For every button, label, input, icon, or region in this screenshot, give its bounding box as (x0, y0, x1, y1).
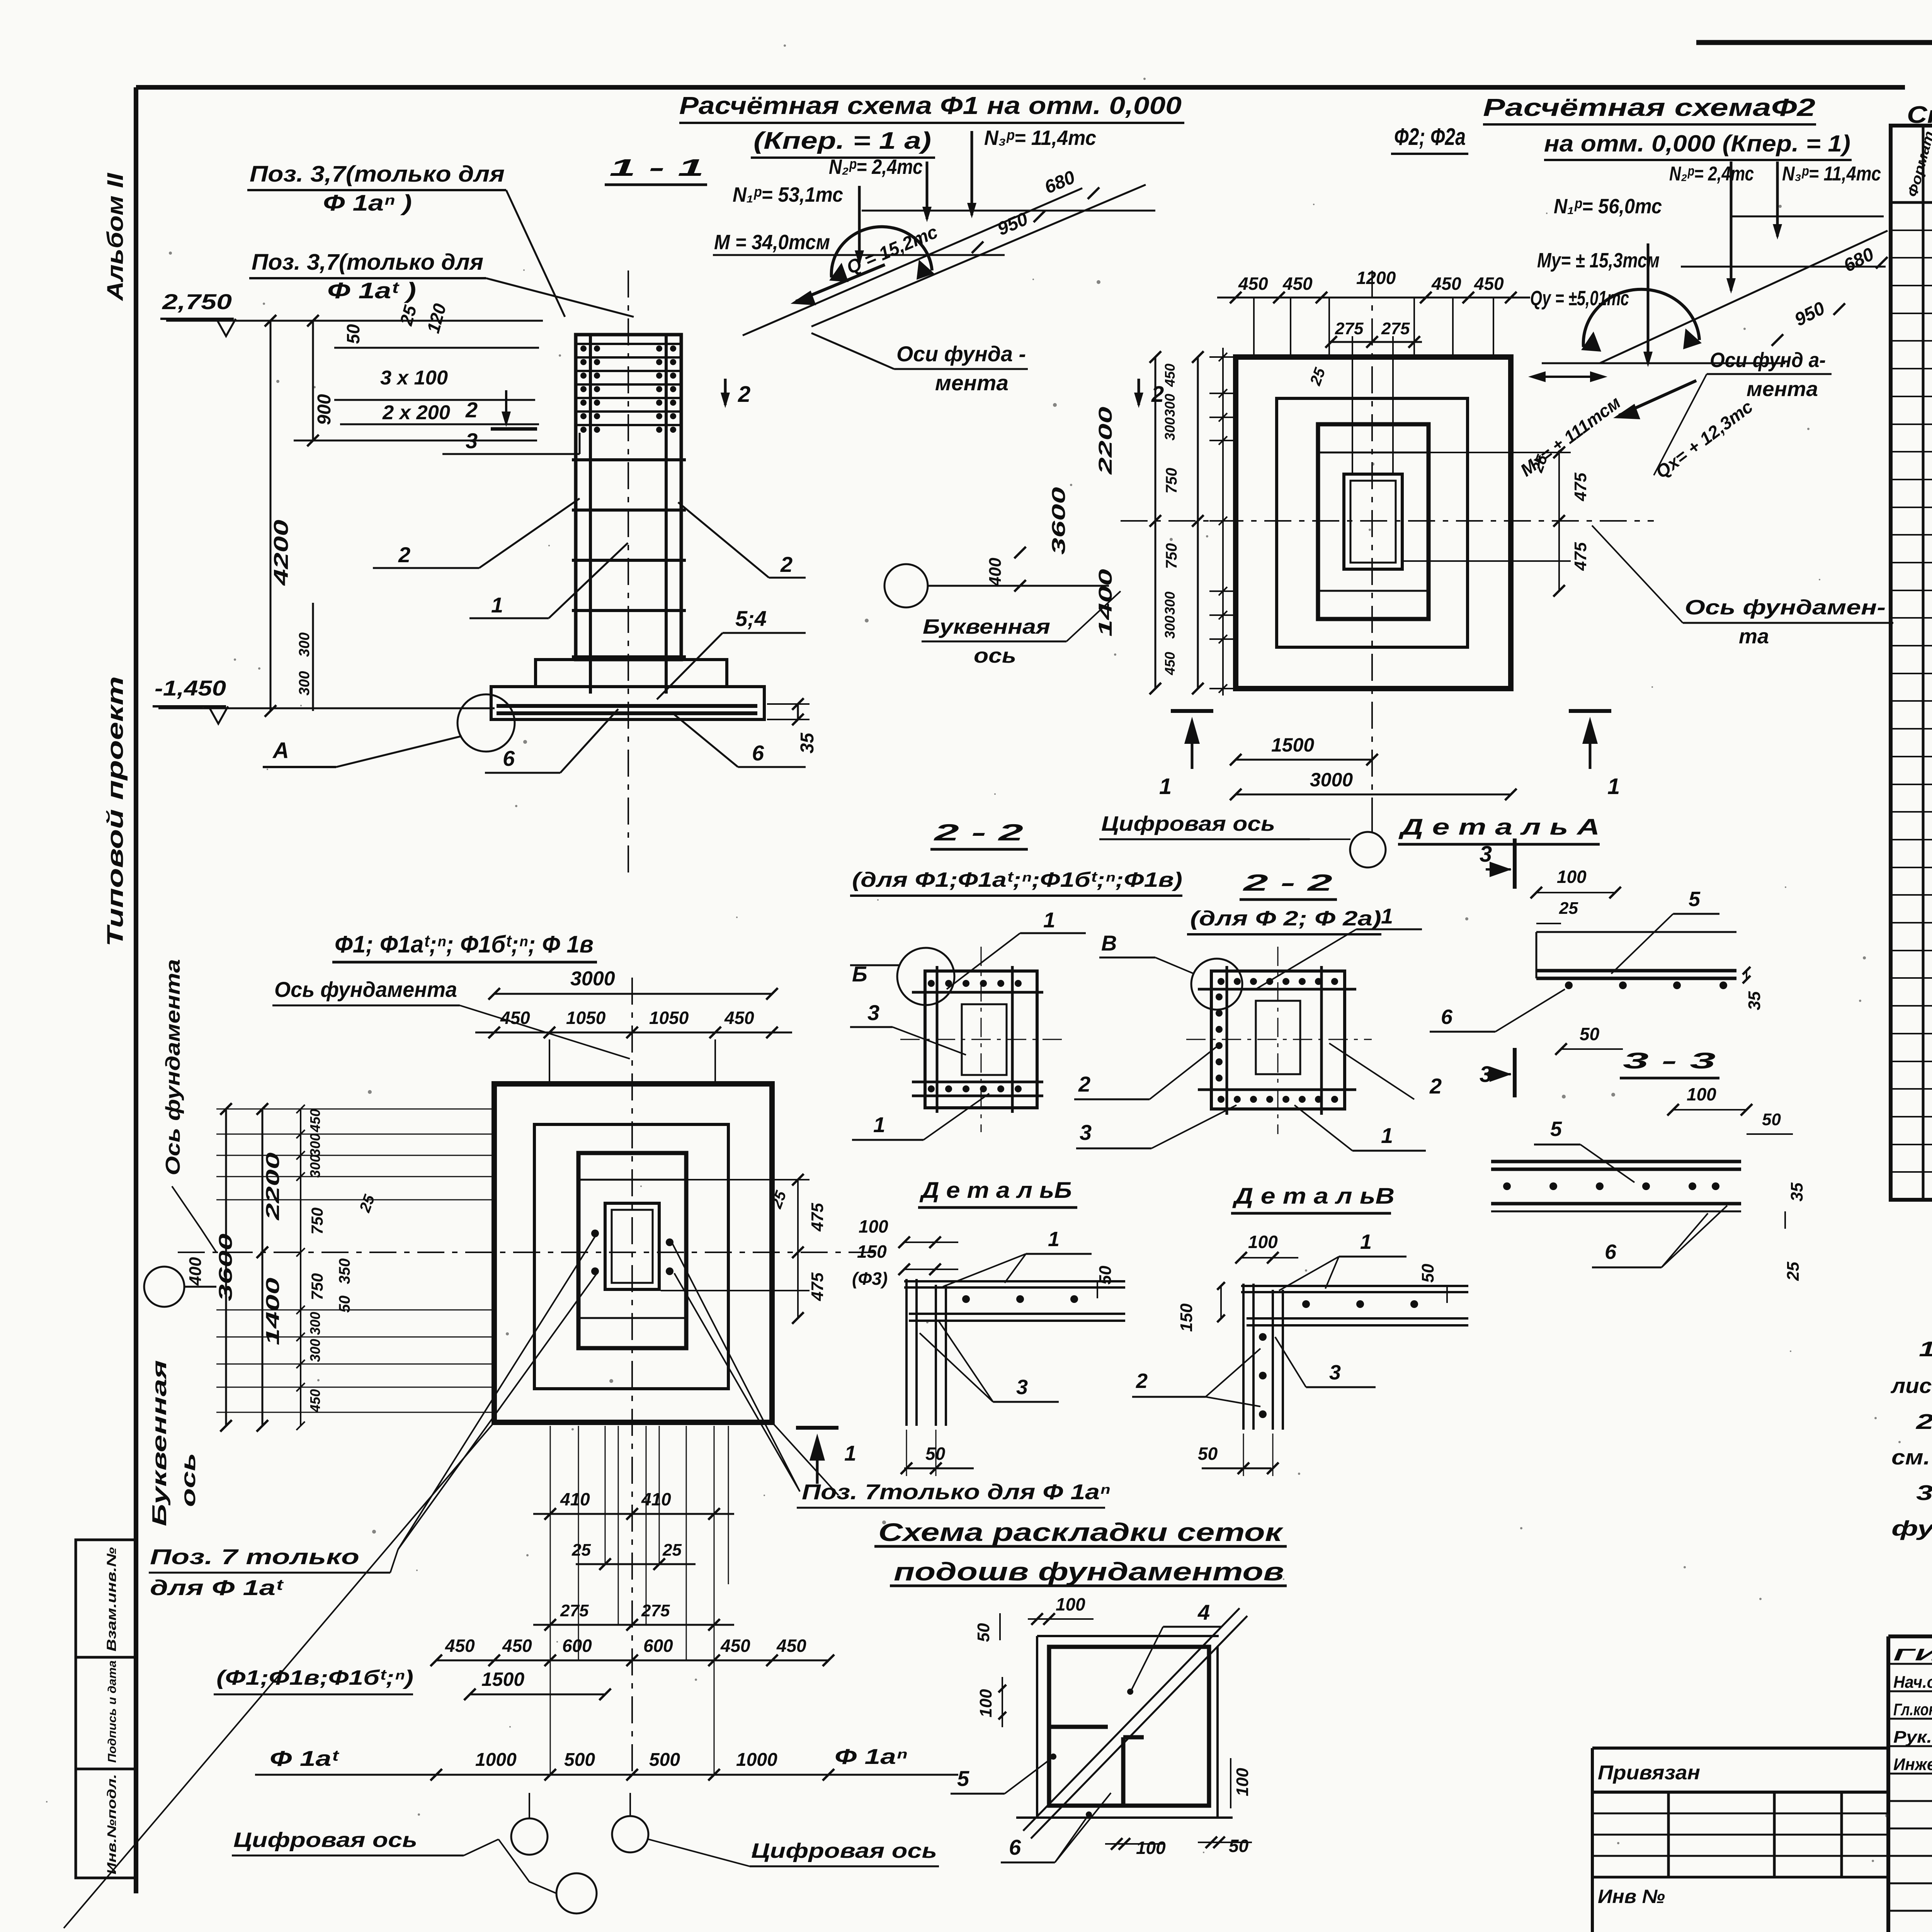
schema F1 moment arc (832, 227, 932, 277)
svg-text:мента: мента (935, 371, 1009, 395)
detail A slab (1536, 931, 1736, 933)
svg-text:3: 3 (466, 429, 478, 453)
privyazan table (1592, 1747, 1888, 1750)
svg-text:2.Указания по составу бетона: 2.Указания по составу бетона и его плотн… (1916, 1410, 1932, 1434)
schema F2 force arrow N3 (1776, 162, 1779, 236)
plan F1 dim 1500 (470, 1694, 605, 1696)
svg-text:ось: ось (177, 1453, 200, 1507)
svg-text:5: 5 (1550, 1117, 1562, 1141)
svg-text:100: 100 (1248, 1232, 1278, 1252)
svg-text:Оси фунда -: Оси фунда - (896, 342, 1026, 366)
svg-text:5: 5 (957, 1766, 969, 1791)
mesh layout inner partitions (1049, 1725, 1108, 1729)
svg-text:Ф 1аⁿ: Ф 1аⁿ (835, 1744, 907, 1769)
svg-text:(Кпер. = 1 а): (Кпер. = 1 а) (753, 128, 931, 154)
svg-text:2200: 2200 (1095, 406, 1116, 475)
svg-text:50: 50 (1580, 1024, 1600, 1044)
mesh layout outer thin square (1036, 1636, 1038, 1818)
svg-text:Qу = ±5,01тс: Qу = ±5,01тс (1530, 287, 1629, 310)
svg-text:1: 1 (844, 1441, 856, 1465)
spec table column lines (1922, 126, 1925, 1200)
svg-text:25: 25 (1559, 899, 1578, 918)
plan F2 anchor opening double rect (1344, 474, 1402, 569)
svg-text:150: 150 (857, 1242, 887, 1262)
plan F1 middle step rect (534, 1124, 728, 1389)
svg-text:100: 100 (976, 1689, 995, 1718)
svg-text:Цифровая ось: Цифровая ось (751, 1839, 937, 1862)
left margin stamp column (76, 1540, 136, 1878)
svg-text:750: 750 (308, 1207, 326, 1235)
svg-text:3000: 3000 (570, 968, 615, 990)
plan F2 dim 3000 (1236, 794, 1511, 796)
svg-text:Поз. 7только для Ф 1аⁿ: Поз. 7только для Ф 1аⁿ (802, 1480, 1110, 1504)
svg-text:M = 34,0тсм: M = 34,0тсм (714, 231, 830, 254)
svg-text:450: 450 (502, 1636, 532, 1656)
svg-text:Взам.инв.№: Взам.инв.№ (104, 1547, 119, 1651)
svg-text:25: 25 (1307, 366, 1329, 388)
svg-text:3: 3 (1080, 1120, 1092, 1145)
svg-text:100: 100 (859, 1216, 888, 1236)
plan F2 pedestal inner lines (1318, 452, 1429, 454)
svg-text:Рук. гр.: Рук. гр. (1893, 1728, 1932, 1747)
svg-text:N₂ᵖ= 2,4тс: N₂ᵖ= 2,4тс (829, 155, 923, 179)
section 1-1 slab mesh thick lines (497, 704, 757, 708)
svg-text:Буквенная: Буквенная (148, 1360, 171, 1526)
svg-text:450: 450 (1162, 364, 1178, 387)
svg-text:450: 450 (720, 1636, 750, 1656)
section mark 2 right (1138, 379, 1140, 405)
svg-text:2: 2 (465, 398, 478, 422)
section 2-2 F2 inner rect (1256, 1001, 1300, 1074)
plan F1 dim 25 25 (576, 1563, 696, 1565)
svg-text:мента: мента (1747, 378, 1818, 401)
svg-text:450: 450 (500, 1008, 530, 1028)
section 3-3 slab (1491, 1160, 1741, 1163)
svg-text:3 х 100: 3 х 100 (380, 367, 448, 389)
section 2-2 F2 centerlines (1277, 947, 1279, 1134)
svg-text:1200: 1200 (1356, 268, 1396, 288)
svg-text:100: 100 (1136, 1838, 1166, 1858)
svg-text:2: 2 (398, 543, 410, 567)
svg-text:1 - 1: 1 - 1 (609, 155, 704, 181)
svg-text:2 х 200: 2 х 200 (382, 401, 450, 424)
svg-text:Ось фундамента: Ось фундамента (274, 977, 457, 1002)
svg-text:Ось фундамента: Ось фундамента (162, 959, 184, 1175)
svg-text:4: 4 (1197, 1600, 1210, 1624)
svg-text:Нач.отд.: Нач.отд. (1893, 1673, 1932, 1692)
svg-text:N₃ᵖ= 11,4тс: N₃ᵖ= 11,4тс (1782, 163, 1881, 185)
svg-text:Mу= ± 15,3тсм: Mу= ± 15,3тсм (1537, 249, 1660, 272)
svg-text:450: 450 (307, 1109, 323, 1133)
svg-text:Поз. 7 только: Поз. 7 только (150, 1544, 359, 1569)
svg-text:1: 1 (491, 593, 503, 617)
section 2-2 F1 rebar grid (936, 966, 939, 1113)
svg-text:25: 25 (396, 303, 420, 328)
svg-text:Привязан: Привязан (1598, 1762, 1700, 1784)
svg-text:Поз. 3,7(только для: Поз. 3,7(только для (250, 162, 505, 187)
svg-text:450: 450 (776, 1636, 806, 1656)
svg-text:450: 450 (445, 1636, 475, 1656)
plan F2 dim 275 275 (1329, 341, 1422, 343)
schema F1 oblique axis (743, 188, 1082, 335)
svg-text:3600: 3600 (216, 1233, 236, 1301)
svg-text:Ф 1аᵗ: Ф 1аᵗ (270, 1746, 340, 1770)
svg-text:2: 2 (1136, 1369, 1148, 1393)
svg-text:N₁ᵖ= 53,1тс: N₁ᵖ= 53,1тс (733, 183, 843, 206)
svg-text:275: 275 (1335, 319, 1364, 338)
svg-text:475: 475 (1571, 542, 1590, 571)
svg-text:350: 350 (336, 1259, 353, 1284)
svg-text:275: 275 (641, 1601, 670, 1620)
svg-text:300: 300 (296, 633, 313, 657)
schema F2 Qy horizontal arrows (1532, 376, 1604, 378)
plan F1 bottom projection verticals (550, 1426, 551, 1774)
plan F2 top dim chain 450 450 1200 450 450 (1217, 297, 1530, 299)
plan F2 middle step rect (1277, 398, 1468, 647)
svg-text:2 - 2: 2 - 2 (1243, 870, 1332, 896)
svg-text:Ф 1аᵗ ): Ф 1аᵗ ) (327, 278, 416, 303)
svg-text:5;4: 5;4 (735, 606, 767, 631)
svg-text:950: 950 (1791, 298, 1828, 330)
svg-text:2: 2 (1429, 1074, 1442, 1098)
detail V corner vertical bars (1242, 1284, 1245, 1430)
svg-text:450: 450 (1238, 274, 1268, 294)
svg-text:6: 6 (1009, 1835, 1021, 1859)
plan F1 anchor opening double rect (605, 1203, 659, 1289)
section 1-1 dim 900 (312, 321, 314, 440)
svg-text:(Ф3): (Ф3) (852, 1269, 888, 1289)
svg-text:3.Разбивка дополнительных за: 3.Разбивка дополнительных закладных дета… (1916, 1481, 1932, 1505)
svg-text:Цифровая ось: Цифровая ось (233, 1828, 417, 1852)
plan F1 top dim chain 450 1050 1050 450 (475, 1032, 792, 1034)
svg-text:(для Ф 2; Ф 2а): (для Ф 2; Ф 2а) (1190, 907, 1381, 930)
svg-text:N₂ᵖ= 2,4тс: N₂ᵖ= 2,4тс (1669, 163, 1754, 185)
svg-text:450: 450 (1282, 274, 1313, 294)
section 2-2 F2 outer rect (1211, 971, 1345, 1109)
plan F1 letter axis circle left (144, 1267, 184, 1307)
spec table row lines (1891, 230, 1932, 231)
svg-text:475: 475 (1571, 473, 1590, 502)
svg-text:3: 3 (867, 1000, 879, 1025)
detail circle A on footing (457, 694, 515, 752)
svg-text:35: 35 (1787, 1182, 1806, 1201)
svg-text:100: 100 (1687, 1084, 1716, 1104)
section 2-2 F1 inner rect (962, 1004, 1007, 1075)
plan F2 dim 1500 (1236, 759, 1372, 761)
svg-text:на отм. 0,000 (Кпер. = 1): на отм. 0,000 (Кпер. = 1) (1544, 131, 1850, 156)
schema F1 ground level lines (713, 254, 1005, 256)
svg-text:100: 100 (1557, 867, 1587, 887)
svg-text:Альбом II: Альбом II (103, 172, 128, 302)
detail B corner: vertical wall bars (905, 1279, 908, 1426)
section 1-1 column outline (576, 335, 681, 660)
svg-text:1.Ведомость расхода стали н: 1.Ведомость расхода стали на фундамент д… (1919, 1337, 1932, 1361)
svg-text:400: 400 (986, 558, 1005, 587)
svg-text:50: 50 (1229, 1836, 1249, 1856)
svg-text:6: 6 (1605, 1240, 1617, 1264)
svg-text:подошв фундаментов: подошв фундаментов (894, 1557, 1284, 1586)
plan F1 dim chain 450 450 600 600 450 450 (436, 1660, 828, 1662)
svg-text:Оси фунд а-: Оси фунд а- (1710, 349, 1826, 372)
svg-text:(Ф1;Ф1в;Ф1бᵗ;ⁿ): (Ф1;Ф1в;Ф1бᵗ;ⁿ) (216, 1666, 413, 1689)
svg-text:2: 2 (738, 382, 750, 407)
section 1-1 vertical dimension line 4200 (270, 321, 272, 711)
plan F1 rebar dots (591, 1230, 599, 1237)
svg-text:1: 1 (1360, 1230, 1372, 1253)
svg-text:Подпись и дата: Подпись и дата (106, 1660, 119, 1763)
plan F1 projection lines above (549, 1039, 550, 1084)
plan F1 dim 410 410 (533, 1513, 734, 1515)
schema F2 Qx diagonal arrow (1619, 381, 1696, 415)
svg-text:для Ф 1аᵗ: для Ф 1аᵗ (150, 1575, 284, 1600)
svg-text:150: 150 (1177, 1303, 1196, 1332)
section 2-2 F1 centerlines (981, 947, 982, 1132)
svg-text:300: 300 (307, 1339, 323, 1362)
plan F1 dim 275 275 (533, 1624, 734, 1626)
svg-text:475: 475 (808, 1203, 827, 1232)
svg-text:450: 450 (724, 1008, 754, 1028)
svg-text:Ф1; Ф1аᵗ;ⁿ; Ф1бᵗ;ⁿ; Ф 1в: Ф1; Ф1аᵗ;ⁿ; Ф1бᵗ;ⁿ; Ф 1в (335, 931, 594, 958)
svg-text:2 - 2: 2 - 2 (934, 820, 1023, 845)
svg-text:Цифровая ось: Цифровая ось (1101, 812, 1275, 835)
svg-text:300: 300 (307, 1312, 323, 1335)
section 2-2 F2 detail circle V (1191, 959, 1242, 1010)
svg-text:275: 275 (1381, 319, 1410, 338)
svg-text:3000: 3000 (1310, 769, 1353, 791)
svg-text:ГИП: ГИП (1893, 1645, 1932, 1664)
spec table outer frame (1891, 126, 1932, 1200)
svg-text:680: 680 (1840, 244, 1878, 276)
detail B slab lines (904, 1280, 1125, 1282)
svg-text:410: 410 (641, 1489, 671, 1509)
svg-text:1400: 1400 (263, 1277, 283, 1345)
svg-text:450: 450 (1162, 652, 1178, 675)
svg-text:2,750: 2,750 (162, 289, 232, 314)
title block outer (1888, 1634, 1932, 1638)
svg-text:35: 35 (1745, 991, 1764, 1010)
svg-text:Гл.констр: Гл.констр (1893, 1700, 1932, 1719)
svg-text:500: 500 (649, 1750, 680, 1770)
svg-text:Типовой проект: Типовой проект (103, 676, 128, 947)
plan F1 left dim verticals (225, 1109, 227, 1426)
svg-text:та: та (1739, 625, 1769, 648)
plan F2 outer slab rect (1236, 357, 1511, 689)
plan F1 top dim 3000 (494, 993, 772, 995)
plan F1 outer slab rect (494, 1084, 772, 1422)
svg-text:50: 50 (974, 1623, 993, 1642)
svg-text:Д е т а л ь А: Д е т а л ь А (1398, 815, 1600, 840)
svg-text:Ф 1аⁿ ): Ф 1аⁿ ) (323, 190, 412, 216)
svg-text:1: 1 (1043, 908, 1055, 932)
svg-text:25: 25 (356, 1192, 378, 1215)
svg-text:Схема раскладки сеток: Схема раскладки сеток (878, 1518, 1284, 1546)
svg-text:600: 600 (643, 1636, 673, 1656)
svg-text:Поз. 3,7(только для: Поз. 3,7(только для (252, 250, 483, 275)
svg-text:Инв.№подл.: Инв.№подл. (105, 1774, 119, 1874)
svg-text:Д е т а л ьБ: Д е т а л ьБ (919, 1178, 1072, 1203)
svg-text:1500: 1500 (1271, 734, 1314, 756)
svg-text:100: 100 (1233, 1768, 1252, 1796)
svg-text:1: 1 (1381, 1123, 1393, 1148)
svg-text:6: 6 (752, 741, 764, 765)
plan F1 diagonal leaders from poz7 (398, 1236, 595, 1549)
svg-text:275: 275 (560, 1601, 589, 1620)
svg-text:1000: 1000 (736, 1750, 777, 1770)
svg-text:1: 1 (1048, 1228, 1060, 1251)
sheet frame top border right part (1696, 40, 1932, 45)
svg-text:750: 750 (1163, 468, 1180, 494)
section 1-1 vertical rebar left (589, 336, 592, 694)
section mark 1 up bottom left (796, 1426, 838, 1430)
svg-text:1: 1 (1607, 774, 1620, 799)
svg-text:Инженер: Инженер (1893, 1755, 1932, 1774)
svg-text:Формат: Формат (1904, 129, 1932, 199)
svg-text:2: 2 (1078, 1072, 1090, 1096)
svg-text:50: 50 (1418, 1264, 1437, 1282)
svg-text:25: 25 (571, 1541, 591, 1560)
section 1-1 footing step (536, 660, 727, 687)
svg-text:см. АР, лист 2.: см. АР, лист 2. (1891, 1445, 1932, 1469)
title block staff rows (1888, 1663, 1932, 1665)
svg-text:В: В (1101, 931, 1117, 955)
svg-text:ось: ось (974, 644, 1016, 667)
schema F1 Q diagonal arrow (796, 265, 885, 301)
schema F1 force arrow N2 (926, 162, 929, 219)
svg-text:(для Ф1;Ф1аᵗ;ⁿ;Ф1бᵗ;ⁿ;Ф1в): (для Ф1;Ф1аᵗ;ⁿ;Ф1бᵗ;ⁿ;Ф1в) (852, 868, 1182, 891)
svg-text:300: 300 (1162, 394, 1178, 417)
svg-text:листе 12.: листе 12. (1890, 1374, 1932, 1398)
svg-text:А: А (272, 738, 289, 763)
svg-text:Ось фундамен-: Ось фундамен- (1685, 596, 1886, 619)
plan F2 left dim chains (1155, 357, 1156, 689)
section 1-1 column ties dense (577, 343, 680, 345)
plan F1 long corner diagonals (64, 1422, 494, 1928)
svg-text:-1,450: -1,450 (155, 676, 226, 700)
svg-text:750: 750 (1163, 543, 1180, 569)
svg-text:500: 500 (564, 1750, 595, 1770)
plan F2 centerlines (1371, 270, 1373, 831)
svg-text:300: 300 (307, 1133, 323, 1156)
sheet frame top border left part (136, 85, 1905, 90)
plan F2 sub dim chain (1209, 356, 1236, 358)
plan F1 dims 475 475 right side (797, 1180, 799, 1318)
svg-text:Расчётная схемаФ2: Расчётная схемаФ2 (1483, 94, 1815, 121)
svg-text:450: 450 (1431, 274, 1461, 294)
svg-text:1050: 1050 (649, 1008, 689, 1028)
plan F2 pedestal rect (1318, 424, 1429, 619)
svg-text:1: 1 (1159, 774, 1172, 799)
plan F1 pedestal inner lines (578, 1179, 686, 1181)
svg-text:25: 25 (662, 1541, 682, 1560)
dim 35 right of slab (797, 704, 799, 719)
plan F2 letter axis circle (884, 564, 928, 607)
svg-text:300: 300 (1162, 616, 1178, 639)
svg-text:50: 50 (343, 324, 363, 344)
svg-text:4200: 4200 (270, 520, 293, 586)
schema F2 force arrow N2 (1730, 162, 1733, 291)
svg-text:Ф2; Ф2а: Ф2; Ф2а (1394, 124, 1466, 150)
svg-text:5: 5 (1689, 888, 1701, 911)
section 2-2 F1 detail circle B (897, 948, 954, 1005)
svg-text:410: 410 (560, 1489, 590, 1509)
mesh layout mesh 4 thick rect (1049, 1647, 1209, 1806)
section mark 2 left (724, 379, 727, 405)
plan F1 axis circles bottom (511, 1818, 548, 1855)
detail V slab lines (1241, 1285, 1468, 1287)
svg-text:450: 450 (307, 1389, 323, 1413)
svg-text:3600: 3600 (1049, 487, 1069, 554)
svg-text:3: 3 (1016, 1376, 1028, 1399)
svg-text:300: 300 (1162, 417, 1178, 440)
svg-text:1000: 1000 (475, 1750, 517, 1770)
svg-text:Д е т а л ьВ: Д е т а л ьВ (1232, 1184, 1395, 1209)
svg-text:N₁ᵖ= 56,0тс: N₁ᵖ= 56,0тс (1554, 195, 1662, 218)
svg-text:3 - 3: 3 - 3 (1623, 1048, 1716, 1073)
svg-text:300: 300 (1162, 592, 1178, 615)
svg-text:3: 3 (1329, 1361, 1341, 1384)
svg-text:750: 750 (308, 1273, 326, 1300)
schema F2 force arrow N1 (1647, 243, 1650, 364)
plan F1 centerlines (631, 978, 633, 1777)
svg-text:1050: 1050 (566, 1008, 606, 1028)
svg-text:2: 2 (780, 552, 793, 577)
svg-text:1500: 1500 (481, 1668, 524, 1690)
plan F2 section marks 1 below (1171, 709, 1213, 713)
svg-text:475: 475 (808, 1272, 827, 1301)
plan F2 dims 475 475 right (1558, 452, 1560, 591)
svg-text:1: 1 (873, 1112, 885, 1137)
section 1-1 column centerline (628, 270, 629, 873)
svg-text:Расчётная схема Ф1 на отм.: Расчётная схема Ф1 на отм. 0,000 (679, 92, 1182, 119)
svg-text:Буквенная: Буквенная (923, 615, 1050, 638)
svg-text:900: 900 (314, 394, 335, 425)
plan F2 projection lines above (1253, 298, 1255, 359)
svg-text:N₃ᵖ= 11,4тс: N₃ᵖ= 11,4тс (984, 126, 1096, 150)
svg-text:50: 50 (1096, 1265, 1115, 1284)
svg-text:25: 25 (1784, 1262, 1803, 1281)
svg-text:120: 120 (423, 301, 450, 335)
svg-text:6: 6 (503, 746, 515, 770)
svg-text:1400: 1400 (1095, 569, 1116, 636)
plan F1 pedestal rect (578, 1153, 686, 1348)
svg-text:6: 6 (1441, 1005, 1453, 1029)
schema F2 oblique axis lines (1600, 231, 1888, 363)
section 1-1 dim chain top (50 25 120 3x100 2x200) (334, 347, 539, 349)
svg-text:50: 50 (1198, 1444, 1218, 1464)
svg-text:35: 35 (797, 732, 818, 753)
svg-text:Qх= + 12,3тс: Qх= + 12,3тс (1652, 396, 1757, 482)
svg-text:50: 50 (1762, 1110, 1781, 1129)
section 1-1 footing slab (491, 687, 764, 719)
svg-text:2200: 2200 (263, 1152, 283, 1221)
section 1-1 column ties sparse (572, 458, 686, 461)
svg-text:400: 400 (186, 1257, 205, 1286)
svg-text:450: 450 (1474, 274, 1504, 294)
plan F1 horizontal projection lines left (216, 1109, 495, 1110)
schema F1 force arrow N3 (971, 131, 973, 215)
sheet frame left border (134, 87, 138, 1893)
section 2-2 F2 rebar grid (1226, 966, 1228, 1115)
svg-text:Инв №: Инв № (1598, 1886, 1665, 1907)
plan F1 dim 1000 500 500 1000 (436, 1774, 828, 1776)
svg-text:100: 100 (1056, 1594, 1085, 1614)
svg-text:300: 300 (307, 1155, 323, 1178)
schema F2 moment arc (1583, 289, 1699, 347)
svg-text:1: 1 (1381, 904, 1393, 928)
spec table header row line (1891, 201, 1932, 204)
svg-text:300: 300 (296, 671, 313, 696)
section 1-1 vertical rebar right (665, 336, 668, 694)
